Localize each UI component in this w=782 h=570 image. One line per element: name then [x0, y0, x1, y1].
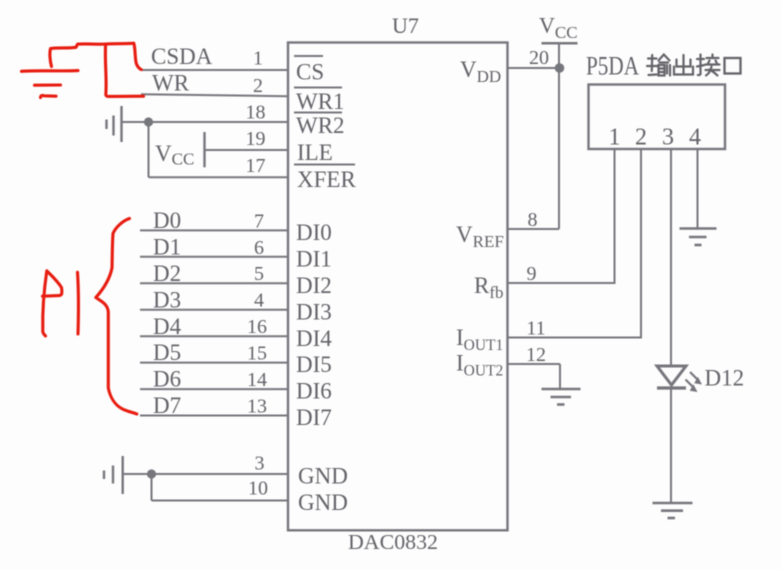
svg-text:2: 2 — [635, 125, 647, 151]
svg-text:DI1: DI1 — [296, 246, 332, 271]
svg-text:17: 17 — [246, 155, 266, 177]
svg-text:1: 1 — [609, 125, 621, 151]
svg-text:D5: D5 — [153, 340, 181, 365]
svg-text:DI2: DI2 — [296, 273, 332, 298]
svg-text:WR2: WR2 — [296, 113, 345, 138]
svg-text:GND: GND — [298, 490, 348, 515]
svg-text:13: 13 — [247, 396, 267, 418]
svg-text:15: 15 — [247, 343, 267, 365]
svg-text:4: 4 — [254, 290, 264, 312]
svg-text:D6: D6 — [153, 367, 181, 392]
svg-text:11: 11 — [526, 318, 545, 340]
svg-text:ILE: ILE — [297, 140, 333, 165]
svg-text:18: 18 — [246, 102, 266, 124]
svg-text:D0: D0 — [153, 208, 181, 233]
svg-text:DI6: DI6 — [296, 379, 332, 404]
svg-text:7: 7 — [254, 210, 264, 232]
svg-text:P5DA: P5DA — [586, 52, 639, 81]
svg-text:DI3: DI3 — [296, 299, 332, 324]
svg-text:20: 20 — [529, 47, 549, 69]
svg-text:4: 4 — [689, 125, 701, 151]
svg-text:5: 5 — [254, 263, 264, 285]
svg-text:U7: U7 — [392, 13, 419, 38]
svg-text:DI7: DI7 — [296, 405, 332, 430]
svg-text:3: 3 — [255, 453, 265, 475]
svg-text:WR: WR — [152, 71, 190, 96]
svg-text:19: 19 — [246, 128, 266, 150]
svg-text:WR1: WR1 — [296, 89, 345, 114]
svg-text:DAC0832: DAC0832 — [348, 530, 438, 554]
svg-text:DI0: DI0 — [296, 220, 332, 245]
svg-text:D1: D1 — [153, 234, 181, 259]
svg-text:8: 8 — [528, 209, 538, 231]
svg-text:3: 3 — [662, 125, 674, 151]
svg-text:16: 16 — [247, 316, 267, 338]
svg-text:2: 2 — [253, 75, 263, 97]
svg-text:DI5: DI5 — [296, 352, 332, 377]
svg-text:9: 9 — [527, 263, 537, 285]
svg-text:1: 1 — [253, 48, 263, 70]
svg-text:14: 14 — [247, 369, 267, 391]
svg-text:D7: D7 — [153, 393, 181, 418]
svg-text:XFER: XFER — [297, 167, 356, 192]
svg-text:6: 6 — [254, 237, 264, 259]
svg-text:D4: D4 — [153, 314, 182, 339]
svg-text:10: 10 — [248, 478, 268, 500]
svg-text:DI4: DI4 — [296, 326, 332, 351]
svg-text:CSDA: CSDA — [151, 44, 213, 69]
svg-text:CS: CS — [296, 60, 324, 85]
svg-text:GND: GND — [298, 464, 348, 489]
svg-text:D12: D12 — [705, 366, 745, 391]
svg-text:12: 12 — [526, 344, 546, 366]
svg-text:D3: D3 — [153, 287, 181, 312]
svg-text:D2: D2 — [153, 261, 181, 286]
